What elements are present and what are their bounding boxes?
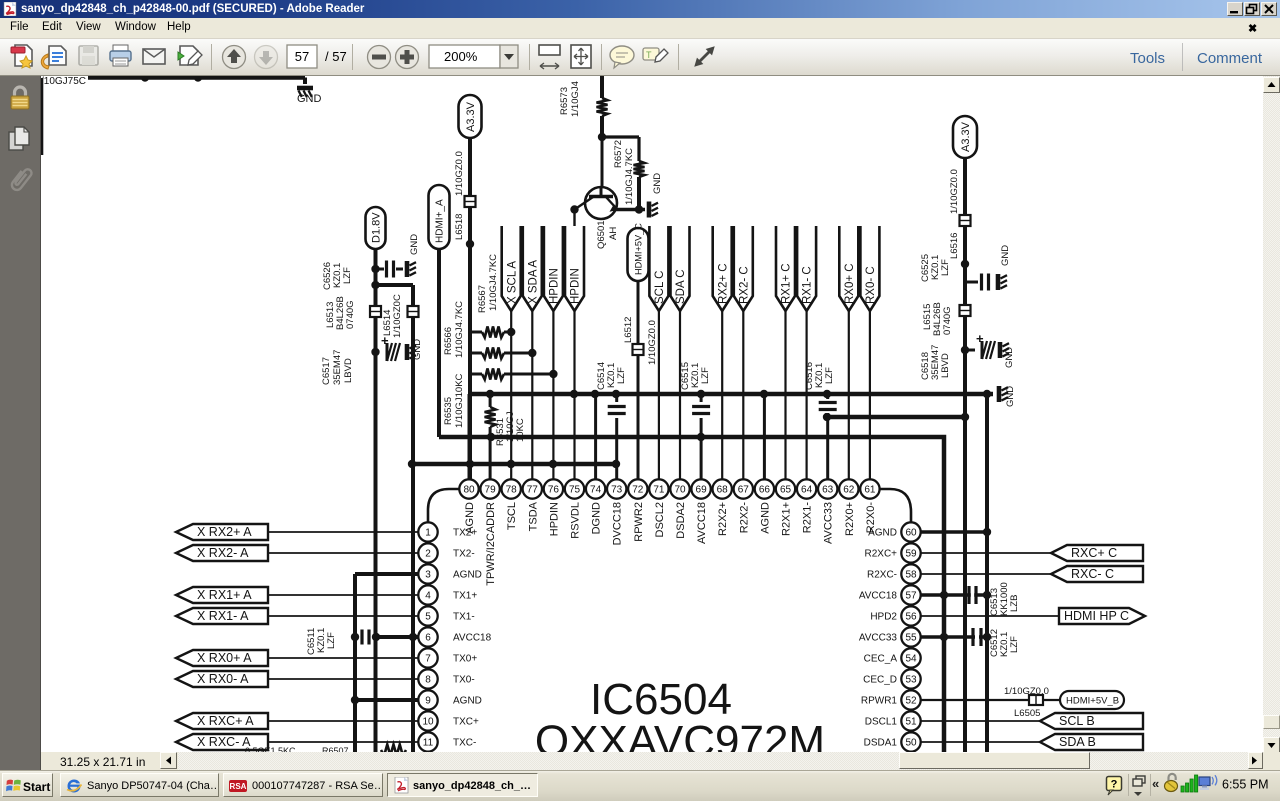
connector flag X RX2+ A xyxy=(176,524,268,540)
svg-text:RX1+ C: RX1+ C xyxy=(781,263,793,304)
svg-text:GND: GND xyxy=(1005,386,1016,407)
resistor R6567 xyxy=(470,254,537,359)
pin 5 xyxy=(418,606,474,625)
comment bubble icon xyxy=(610,46,634,68)
svg-text:74: 74 xyxy=(590,485,602,496)
wire Q6501 collector stem xyxy=(601,137,604,189)
svg-text:Comment: Comment xyxy=(1197,50,1263,67)
wire RXC- C xyxy=(921,573,1051,575)
pin 73 xyxy=(607,479,626,545)
svg-text:X RX2+ A: X RX2+ A xyxy=(197,525,252,539)
svg-text:TSCL: TSCL xyxy=(506,502,518,530)
help bubble tray icon xyxy=(1107,777,1122,796)
svg-text:RSA: RSA xyxy=(230,782,247,791)
svg-text:10: 10 xyxy=(422,717,434,728)
wire pin73 stem xyxy=(615,394,618,480)
signal flag RX1+ C xyxy=(776,226,795,311)
power terminal A3.3V xyxy=(459,95,482,138)
svg-text:59: 59 xyxy=(905,549,917,560)
svg-text:AGND: AGND xyxy=(453,570,482,581)
svg-text:GND: GND xyxy=(652,173,663,194)
svg-text:TX1+: TX1+ xyxy=(453,591,477,602)
svg-text:CEC_A: CEC_A xyxy=(864,654,898,665)
svg-text:AGND: AGND xyxy=(453,696,482,707)
pin 66 xyxy=(755,479,774,533)
svg-text:SCL C: SCL C xyxy=(654,271,666,304)
transistor Q6501 xyxy=(575,187,620,249)
signal flag HPDIN xyxy=(544,226,563,311)
ground C6518 xyxy=(1000,342,1015,368)
svg-text:10KC: 10KC xyxy=(515,418,526,442)
wire flag to pin 78 xyxy=(510,311,512,480)
svg-text:X RX0- A: X RX0- A xyxy=(197,672,249,686)
svg-text:11: 11 xyxy=(423,738,434,749)
svg-text:R6566: R6566 xyxy=(443,327,454,355)
wire pin66 stem xyxy=(763,394,766,480)
resistor R6531 xyxy=(485,407,526,446)
svg-text:TXC-: TXC- xyxy=(453,738,476,749)
wire SCL B xyxy=(921,720,1040,722)
fullscreen icon xyxy=(695,47,714,66)
svg-text:T: T xyxy=(646,50,652,60)
IC IC6504 name xyxy=(535,675,825,766)
wire flag to pin 71 xyxy=(658,311,660,480)
svg-text:GND: GND xyxy=(1004,347,1015,368)
svg-text:1/10GZ0.0: 1/10GZ0.0 xyxy=(647,320,658,365)
svg-text:AVCC33: AVCC33 xyxy=(859,633,898,644)
svg-text:56: 56 xyxy=(905,612,917,623)
node bus394 x701 xyxy=(697,390,705,398)
wire pin69 stem xyxy=(700,394,703,480)
pin 52 xyxy=(861,690,921,709)
svg-text:73: 73 xyxy=(611,485,623,496)
capacitor C6526 xyxy=(322,261,403,291)
node C6518 tap xyxy=(961,346,969,354)
svg-text:9: 9 xyxy=(425,696,431,707)
wire L6505 to oval xyxy=(1043,699,1060,701)
capacitor C6516 xyxy=(804,362,837,413)
svg-text:?: ? xyxy=(1111,779,1118,791)
connector flag X RX1+ A xyxy=(176,587,268,603)
svg-text:GND: GND xyxy=(1000,245,1011,266)
svg-text:AVCC33: AVCC33 xyxy=(823,502,835,544)
svg-text:8: 8 xyxy=(425,675,431,686)
pin 78 xyxy=(502,479,521,530)
svg-text:X RX1- A: X RX1- A xyxy=(197,609,249,623)
svg-text:6: 6 xyxy=(425,633,431,644)
svg-text:HPDIN: HPDIN xyxy=(570,268,582,304)
zoom box xyxy=(429,45,518,68)
pin 69 xyxy=(691,479,710,544)
svg-text:RPWR2: RPWR2 xyxy=(633,502,645,542)
signal flag X SDA A xyxy=(523,226,542,311)
wire HDMI+5V_C rail xyxy=(623,281,658,480)
zoom out button xyxy=(368,46,391,69)
pin 1 xyxy=(418,522,477,541)
svg-text:R6507: R6507 xyxy=(322,746,349,752)
svg-text:LZF: LZF xyxy=(342,267,353,284)
svg-text:RXC- C: RXC- C xyxy=(1071,567,1114,581)
pin 57 xyxy=(859,585,921,604)
inductor L6518 xyxy=(454,196,476,240)
wire bus y464 xyxy=(408,460,620,468)
svg-text:X RX2- A: X RX2- A xyxy=(197,546,249,560)
pin 50 xyxy=(864,732,921,751)
signal flag RX2+ C xyxy=(713,226,732,311)
svg-text:A3.3V: A3.3V xyxy=(960,121,972,152)
capacitor C6525 xyxy=(920,254,989,291)
wire flag to pin 67 xyxy=(742,311,744,480)
sign icon xyxy=(178,46,202,65)
connector flag X RX0+ A xyxy=(176,650,268,666)
pin 58 xyxy=(867,564,921,583)
signal flag RX0- C xyxy=(860,226,879,311)
connector flag X RX1- A xyxy=(176,608,268,624)
inductor L6516 xyxy=(949,215,971,259)
wire R6573 to node xyxy=(600,116,604,137)
node D1.8V-C6526 xyxy=(371,265,379,273)
signal flag HPDIN xyxy=(565,226,584,311)
svg-text:X SDA A: X SDA A xyxy=(527,260,539,304)
svg-text:62: 62 xyxy=(843,485,855,496)
svg-text:60: 60 xyxy=(905,528,917,539)
wire flag to pin 77 xyxy=(531,311,533,480)
svg-text:SCL B: SCL B xyxy=(1059,714,1095,728)
svg-text:RX2- C: RX2- C xyxy=(738,266,750,304)
svg-text:0740G: 0740G xyxy=(942,306,953,335)
prev page button xyxy=(223,46,246,69)
svg-text:LBVD: LBVD xyxy=(940,353,951,378)
inductor L6505 xyxy=(1029,695,1043,705)
svg-text:3: 3 xyxy=(425,570,431,581)
wire X RX2- A to pin 2 xyxy=(268,552,418,554)
svg-text:R2X2-: R2X2- xyxy=(738,502,750,534)
inductor L6515 xyxy=(922,302,971,336)
svg-text:AVCC18: AVCC18 xyxy=(859,591,898,602)
svg-text:RX2+ C: RX2+ C xyxy=(717,263,729,304)
inductor L6514 xyxy=(382,294,419,338)
signal flag RX2- C xyxy=(734,226,753,311)
wire rail x987 xyxy=(985,394,989,755)
svg-text:DVCC18: DVCC18 xyxy=(612,502,624,545)
svg-text:7: 7 xyxy=(425,654,431,665)
svg-text:HPDIN: HPDIN xyxy=(548,502,560,536)
svg-text:LBVD: LBVD xyxy=(343,358,354,383)
pin 63 xyxy=(818,479,837,544)
svg-text:66: 66 xyxy=(759,485,771,496)
pin 70 xyxy=(670,479,689,538)
pin 2 xyxy=(418,543,474,562)
signal flag RX0+ C xyxy=(839,226,858,311)
svg-text:R2X2+: R2X2+ xyxy=(717,502,729,536)
node bus394 x827 xyxy=(823,390,831,398)
capacitor C6514 xyxy=(596,362,627,418)
svg-text:4: 4 xyxy=(425,591,431,602)
svg-text:TX0+: TX0+ xyxy=(453,654,477,665)
svg-text:71: 71 xyxy=(653,485,665,496)
svg-text:DSCL1: DSCL1 xyxy=(865,717,898,728)
node bus394 x490 xyxy=(486,390,494,398)
svg-text:1/10GZ0.0: 1/10GZ0.0 xyxy=(949,169,960,214)
wire X RX0- A to pin 8 xyxy=(268,678,418,680)
wire Q6501 base lead xyxy=(570,205,578,226)
svg-text:X RXC- A: X RXC- A xyxy=(197,735,251,749)
svg-text:54: 54 xyxy=(905,654,917,665)
pin 53 xyxy=(863,669,921,688)
email icon xyxy=(143,49,165,64)
svg-text:1/10GZ0C: 1/10GZ0C xyxy=(392,294,403,338)
IC IC6504 outline xyxy=(428,489,911,755)
print icon xyxy=(110,45,131,66)
wire pin72 stem already drawn xyxy=(0,0,1,1)
svg-text:200%: 200% xyxy=(444,49,478,64)
power terminal HDMI+5V_C xyxy=(628,223,649,281)
ground Q6501 xyxy=(649,173,663,218)
svg-text:35EM47: 35EM47 xyxy=(332,350,343,385)
svg-text:TXC+: TXC+ xyxy=(453,717,479,728)
signal flag SCL C xyxy=(649,226,668,311)
pin 11 xyxy=(418,732,476,751)
paperclip icon xyxy=(10,166,33,192)
svg-text:R6567: R6567 xyxy=(477,285,488,313)
node bus394 x574 xyxy=(570,390,578,398)
svg-text:L6516: L6516 xyxy=(949,233,960,259)
svg-text:78: 78 xyxy=(506,485,518,496)
svg-text:GND: GND xyxy=(409,234,420,255)
connector flag X RX0- A xyxy=(176,671,268,687)
svg-text:1/10GJ4.7KC: 1/10GJ4.7KC xyxy=(454,301,465,358)
wire R6572 bottom xyxy=(637,177,641,210)
svg-text:L6505: L6505 xyxy=(1014,708,1040,719)
svg-text:X RX1+ A: X RX1+ A xyxy=(197,588,252,602)
wire D1.8V rail xyxy=(374,249,378,755)
inductor L6512 xyxy=(633,344,644,355)
svg-text:L6512: L6512 xyxy=(623,317,634,343)
node L6518 out xyxy=(466,240,474,248)
pin 64 xyxy=(797,479,816,533)
wire pin80 stem xyxy=(468,394,471,480)
wire Q6501 emitter to ground xyxy=(613,205,645,213)
wire flag to pin 70 xyxy=(679,311,681,480)
svg-text:TX2-: TX2- xyxy=(453,549,475,560)
svg-text:DSDA1: DSDA1 xyxy=(864,738,898,749)
wire HDMI HP C xyxy=(921,615,1059,617)
pin 80 xyxy=(459,479,478,533)
pin 71 xyxy=(649,479,668,537)
resistor R6572 xyxy=(613,140,645,205)
svg-text:Q6501: Q6501 xyxy=(596,220,607,249)
svg-text:51: 51 xyxy=(905,717,917,728)
svg-text:RX0- C: RX0- C xyxy=(865,266,877,304)
svg-text:64: 64 xyxy=(801,485,813,496)
pin 61 xyxy=(860,479,879,533)
svg-text:67: 67 xyxy=(738,485,750,496)
connector flag HDMI HP C xyxy=(1059,608,1145,624)
ground C6526 xyxy=(407,234,420,277)
svg-text:LZF: LZF xyxy=(940,259,951,276)
wire X RXC+ A to pin 10 xyxy=(268,720,418,722)
svg-text:/10GJ75C: /10GJ75C xyxy=(41,76,86,87)
svg-text:HDMI+5V_C: HDMI+5V_C xyxy=(633,223,643,275)
svg-text:55: 55 xyxy=(905,633,917,644)
wire top-left horizontal xyxy=(42,73,305,155)
pin 56 xyxy=(870,606,920,625)
pin 10 xyxy=(418,711,479,730)
svg-text:1: 1 xyxy=(425,528,431,539)
svg-text:/ 57: / 57 xyxy=(325,49,347,64)
wire flag to pin 65 xyxy=(784,311,786,480)
svg-text:TX2+: TX2+ xyxy=(453,528,477,539)
svg-text:L6518: L6518 xyxy=(454,214,465,240)
svg-text:HDMI+5V_B: HDMI+5V_B xyxy=(1066,696,1119,707)
svg-text:69: 69 xyxy=(696,485,708,496)
svg-text:C6517: C6517 xyxy=(321,357,332,385)
svg-text:TX1-: TX1- xyxy=(453,612,475,623)
svg-text:R6573: R6573 xyxy=(559,87,570,115)
pin 59 xyxy=(864,543,920,562)
svg-text:79: 79 xyxy=(485,485,497,496)
svg-text:AVCC18: AVCC18 xyxy=(453,633,492,644)
pages icon xyxy=(9,127,29,150)
svg-text:AH: AH xyxy=(608,227,619,240)
padlock icon xyxy=(11,87,29,109)
svg-text:0740G: 0740G xyxy=(345,300,356,329)
signal bars icon xyxy=(1181,775,1198,792)
node bus394 x616 xyxy=(612,390,620,398)
svg-text:D1.8V: D1.8V xyxy=(370,212,382,243)
svg-text:R6535: R6535 xyxy=(443,397,454,425)
svg-text:61: 61 xyxy=(864,485,876,496)
svg-text:RX0+ C: RX0+ C xyxy=(844,263,856,304)
pin 79 xyxy=(480,479,499,585)
wire A3.3V rail xyxy=(454,138,470,480)
next page button (disabled) xyxy=(255,46,278,69)
svg-text:X SCL A: X SCL A xyxy=(506,261,518,304)
svg-text:LZF: LZF xyxy=(824,367,835,384)
net label /10GJ75C xyxy=(41,76,86,87)
svg-text:GND: GND xyxy=(412,339,423,360)
wire HDMI+_A rail xyxy=(437,249,441,437)
svg-text:57: 57 xyxy=(295,49,309,64)
svg-text:RSVDL: RSVDL xyxy=(570,502,582,539)
resistor R6507 xyxy=(245,745,406,757)
svg-text:QXXAVC972M: QXXAVC972M xyxy=(535,717,825,752)
network display icon xyxy=(1199,775,1217,790)
pin 9 xyxy=(418,690,482,709)
inductor L6513 xyxy=(325,296,381,330)
connector flag X RXC+ A xyxy=(176,713,268,729)
pin 74 xyxy=(586,479,605,534)
svg-text:AGND: AGND xyxy=(868,528,897,539)
wire A3.3V right rail xyxy=(949,158,965,755)
svg-text:1/10GJ4.7KC: 1/10GJ4.7KC xyxy=(488,254,499,311)
svg-text:RXC+ C: RXC+ C xyxy=(1071,546,1117,560)
pin 54 xyxy=(864,648,921,667)
wire X RX1+ A to pin 4 xyxy=(268,594,418,596)
svg-text:70: 70 xyxy=(674,485,686,496)
wire flag to pin 68 xyxy=(721,311,723,480)
svg-text:R2X0+: R2X0+ xyxy=(844,502,856,536)
resistor R6573 xyxy=(559,81,608,117)
node bus394 x987 xyxy=(983,390,991,398)
capacitor C6517 polarized xyxy=(321,333,400,385)
svg-text:HPD2: HPD2 xyxy=(870,612,897,623)
pin 55 xyxy=(859,627,921,646)
page box xyxy=(287,45,317,68)
wire flag to pin 75 xyxy=(573,311,575,480)
connector flag RXC+ C xyxy=(1051,545,1143,561)
create pdf icon xyxy=(11,45,32,68)
wire pin63 stem xyxy=(826,394,829,480)
svg-text:6:55 PM: 6:55 PM xyxy=(1222,778,1269,792)
svg-text:57: 57 xyxy=(905,591,917,602)
svg-text:R2X1+: R2X1+ xyxy=(781,502,793,536)
separator xyxy=(211,44,212,70)
svg-text:1/10GJ10KC: 1/10GJ10KC xyxy=(454,373,465,428)
pin 51 xyxy=(865,711,921,730)
zoom in button xyxy=(396,46,419,69)
svg-text:SDA C: SDA C xyxy=(675,269,687,304)
svg-text:R2XC+: R2XC+ xyxy=(864,549,897,560)
capacitor C6518 polarized xyxy=(920,331,995,380)
node Q6501 collector xyxy=(598,133,606,141)
svg-text:HDMI+_A: HDMI+_A xyxy=(435,199,446,243)
pin 6 xyxy=(418,627,491,646)
svg-text:LZF: LZF xyxy=(1009,636,1020,653)
wire flag to pin 76 xyxy=(552,311,554,480)
pin 7 xyxy=(418,648,477,667)
ground C6525 xyxy=(998,245,1011,290)
power terminal HDMI+_A xyxy=(429,185,450,249)
wire pin60 to rail xyxy=(921,528,991,536)
connector flag SCL B xyxy=(1040,713,1143,729)
svg-text:SDA B: SDA B xyxy=(1059,735,1096,749)
wire flag to pin 62 xyxy=(848,311,850,480)
svg-text:RX1- C: RX1- C xyxy=(802,266,814,304)
svg-text:LZF: LZF xyxy=(616,367,627,384)
svg-text:0.5GE1.5KC: 0.5GE1.5KC xyxy=(245,746,296,752)
svg-text:1/10GJ4: 1/10GJ4 xyxy=(570,81,581,117)
ground C6517 xyxy=(407,339,423,360)
ground bus394 xyxy=(999,386,1016,407)
node D1.8V-branch xyxy=(371,281,379,289)
svg-text:Tools: Tools xyxy=(1130,50,1165,67)
connector flag X RX2- A xyxy=(176,545,268,561)
power terminal D1.8V xyxy=(366,207,386,249)
pin 65 xyxy=(776,479,795,536)
svg-text:X RXC+ A: X RXC+ A xyxy=(197,714,254,728)
svg-text:R2X1-: R2X1- xyxy=(802,502,814,534)
svg-text:80: 80 xyxy=(463,485,475,496)
svg-text:50: 50 xyxy=(905,738,917,749)
wire pin3 to AGND rail xyxy=(355,574,418,755)
svg-text:DGND: DGND xyxy=(591,502,603,534)
svg-text:75: 75 xyxy=(569,485,581,496)
connector flag SDA B xyxy=(1040,734,1143,750)
svg-text:GND: GND xyxy=(297,93,322,105)
pin 67 xyxy=(734,479,753,533)
svg-text:63: 63 xyxy=(822,485,834,496)
svg-text:DSCL2: DSCL2 xyxy=(654,502,666,537)
wire collector branch xyxy=(602,137,639,161)
wire bus y437 xyxy=(439,433,944,755)
node C6517 tap xyxy=(371,348,379,356)
capacitor C6512 xyxy=(921,628,1020,657)
svg-text:CEC_D: CEC_D xyxy=(863,675,897,686)
wire RXC+ C xyxy=(921,552,1051,554)
svg-text:LZB: LZB xyxy=(1009,595,1020,612)
power terminal HDMI+5V_B xyxy=(1060,691,1124,709)
